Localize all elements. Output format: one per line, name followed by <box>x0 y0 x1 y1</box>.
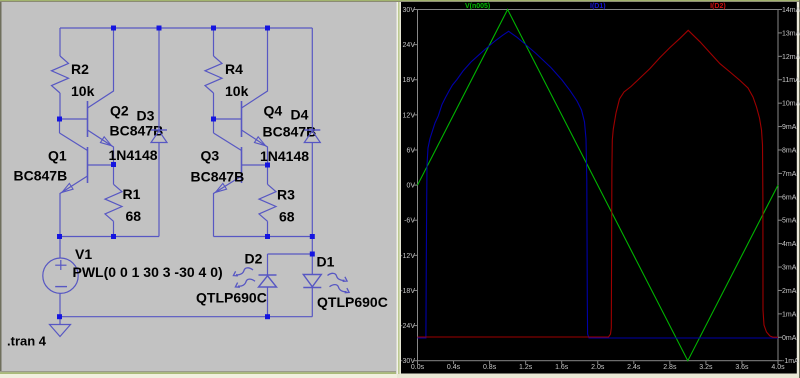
label Q3 value BC847B <box>191 169 245 185</box>
svg-text:BC847B: BC847B <box>191 169 245 185</box>
trace I(D2) red <box>418 30 779 337</box>
svg-text:12V: 12V <box>403 112 416 119</box>
diode D4 <box>304 28 320 237</box>
LED D2 <box>233 268 276 317</box>
node E right <box>265 163 270 168</box>
wire left cell output rail <box>60 236 159 238</box>
svg-text:QTLP690C: QTLP690C <box>317 294 388 310</box>
node LED branch <box>310 252 315 257</box>
label R4 <box>225 61 243 77</box>
label D4 <box>291 107 309 123</box>
svg-text:6mA: 6mA <box>782 194 797 201</box>
transistor Q2 <box>60 28 114 165</box>
svg-text:10k: 10k <box>225 83 249 99</box>
diode D3 <box>151 28 167 237</box>
trace I(D1) blue <box>418 31 779 338</box>
label R2 <box>71 61 89 77</box>
label R3 value 68 <box>279 209 295 225</box>
LED D1 <box>303 254 349 317</box>
time axis labels <box>411 364 785 371</box>
label D3 <box>137 108 155 124</box>
svg-text:10mA: 10mA <box>782 101 800 108</box>
wire top rail <box>60 27 312 29</box>
svg-text:-24V: -24V <box>400 323 415 330</box>
schematic bottom border <box>0 371 397 378</box>
trace label I(D1) <box>590 3 606 10</box>
right axis labels <box>782 7 800 365</box>
wire bottom ground rail <box>60 316 312 318</box>
svg-text:Q3: Q3 <box>201 148 220 164</box>
label Q2 <box>110 103 129 119</box>
svg-text:Q4: Q4 <box>264 103 283 119</box>
label D3 value 1N4148 <box>109 147 158 163</box>
waveform panel background <box>396 0 800 378</box>
time axis ticks <box>418 361 779 365</box>
svg-text:3.6s: 3.6s <box>735 364 749 371</box>
node junctions ground rail <box>57 314 270 319</box>
svg-text:-12V: -12V <box>400 253 415 260</box>
resistor R4 <box>205 28 222 119</box>
svg-text:PWL(0 0 1 30 3 -30 4 0): PWL(0 0 1 30 3 -30 4 0) <box>73 264 223 280</box>
schematic panel background <box>0 0 397 378</box>
node junctions top rail <box>111 26 270 31</box>
svg-text:R1: R1 <box>123 186 141 202</box>
label Q4 value BC847B <box>263 124 317 140</box>
svg-text:9mA: 9mA <box>782 124 797 131</box>
svg-text:R2: R2 <box>71 61 89 77</box>
right axis ticks <box>778 10 782 361</box>
resistor R2 <box>52 28 69 119</box>
svg-text:11mA: 11mA <box>782 77 800 84</box>
svg-text:0.0s: 0.0s <box>411 364 425 371</box>
svg-text:3.2s: 3.2s <box>699 364 713 371</box>
svg-text:1N4148: 1N4148 <box>109 147 158 163</box>
trace V(n005) green triangle <box>418 10 779 361</box>
ground <box>50 317 71 337</box>
left axis labels <box>400 7 415 365</box>
label D1 <box>317 254 335 270</box>
svg-text:1.6s: 1.6s <box>555 364 569 371</box>
resistor R1 <box>105 165 122 237</box>
svg-text:7mA: 7mA <box>782 171 797 178</box>
svg-text:2.0s: 2.0s <box>591 364 605 371</box>
label D4 value 1N4148 <box>260 148 309 164</box>
svg-text:Q2: Q2 <box>110 103 129 119</box>
svg-text:5mA: 5mA <box>782 218 797 225</box>
svg-text:R4: R4 <box>225 61 243 77</box>
svg-text:6V: 6V <box>406 147 415 154</box>
svg-text:2mA: 2mA <box>782 288 797 295</box>
svg-text:8mA: 8mA <box>782 147 797 154</box>
label R4 value 10k <box>225 83 249 99</box>
svg-text:1N4148: 1N4148 <box>260 148 309 164</box>
node B left <box>57 117 62 122</box>
transistor Q3 <box>214 119 268 237</box>
svg-text:0.8s: 0.8s <box>483 364 497 371</box>
svg-text:0.4s: 0.4s <box>447 364 461 371</box>
label D1 value QTLP690C <box>317 294 388 310</box>
svg-text:D1: D1 <box>317 254 335 270</box>
svg-text:4.0s: 4.0s <box>771 364 785 371</box>
svg-text:V(n005): V(n005) <box>465 3 490 10</box>
svg-text:Q1: Q1 <box>48 148 67 164</box>
label Q3 <box>201 148 220 164</box>
spice directive .tran 4 <box>7 334 47 349</box>
transistor Q4 <box>214 28 268 165</box>
node B right <box>211 117 216 122</box>
panel divider <box>396 2 401 374</box>
transistor Q1 <box>60 119 114 237</box>
label R3 <box>277 187 295 203</box>
svg-text:24V: 24V <box>403 42 416 49</box>
node junctions output rail <box>57 234 315 239</box>
window right border <box>797 0 800 378</box>
svg-text:0V: 0V <box>406 183 415 190</box>
svg-text:68: 68 <box>126 208 142 224</box>
svg-text:-18V: -18V <box>400 288 415 295</box>
svg-text:68: 68 <box>279 209 295 225</box>
svg-text:18V: 18V <box>403 77 416 84</box>
svg-text:.tran 4: .tran 4 <box>7 334 47 349</box>
left axis ticks <box>414 10 418 361</box>
label R2 value 10k <box>71 83 95 99</box>
window top border <box>0 0 800 2</box>
label R1 <box>123 186 141 202</box>
svg-text:I(D2): I(D2) <box>710 3 726 10</box>
svg-text:QTLP690C: QTLP690C <box>196 290 267 306</box>
svg-text:D3: D3 <box>137 108 155 124</box>
label Q1 <box>48 148 67 164</box>
svg-text:-6V: -6V <box>404 218 415 225</box>
svg-text:BC847B: BC847B <box>14 168 68 184</box>
svg-text:3mA: 3mA <box>782 265 797 272</box>
label R1 value 68 <box>126 208 142 224</box>
label D2 <box>245 251 263 267</box>
label Q4 <box>264 103 283 119</box>
svg-text:2.4s: 2.4s <box>627 364 641 371</box>
svg-text:10k: 10k <box>71 83 95 99</box>
svg-text:30V: 30V <box>403 7 416 14</box>
svg-text:V1: V1 <box>75 246 92 262</box>
label V1 <box>75 246 92 262</box>
svg-text:14mA: 14mA <box>782 7 800 14</box>
wire right cell output rail <box>214 236 313 238</box>
wire LED feed <box>268 237 313 276</box>
svg-text:D4: D4 <box>291 107 309 123</box>
trace label I(D2) <box>710 3 726 10</box>
label Q2 value BC847B <box>110 123 164 139</box>
svg-text:1.2s: 1.2s <box>519 364 533 371</box>
node E left <box>111 162 116 167</box>
svg-text:12mA: 12mA <box>782 54 800 61</box>
trace label V(n005) <box>465 3 490 10</box>
svg-text:0mA: 0mA <box>782 335 797 342</box>
resistor R3 <box>259 165 276 237</box>
voltage source V1 <box>43 237 78 317</box>
plot border <box>418 10 779 361</box>
svg-text:R3: R3 <box>277 187 295 203</box>
svg-text:4mA: 4mA <box>782 241 797 248</box>
svg-text:I(D1): I(D1) <box>590 3 606 10</box>
svg-text:D2: D2 <box>245 251 263 267</box>
svg-text:1mA: 1mA <box>782 311 797 318</box>
svg-text:2.8s: 2.8s <box>663 364 677 371</box>
label Q1 value BC847B <box>14 168 68 184</box>
label V1 value PWL <box>73 264 223 280</box>
label D2 value QTLP690C <box>196 290 267 306</box>
svg-text:13mA: 13mA <box>782 30 800 37</box>
window left border <box>0 2 2 372</box>
